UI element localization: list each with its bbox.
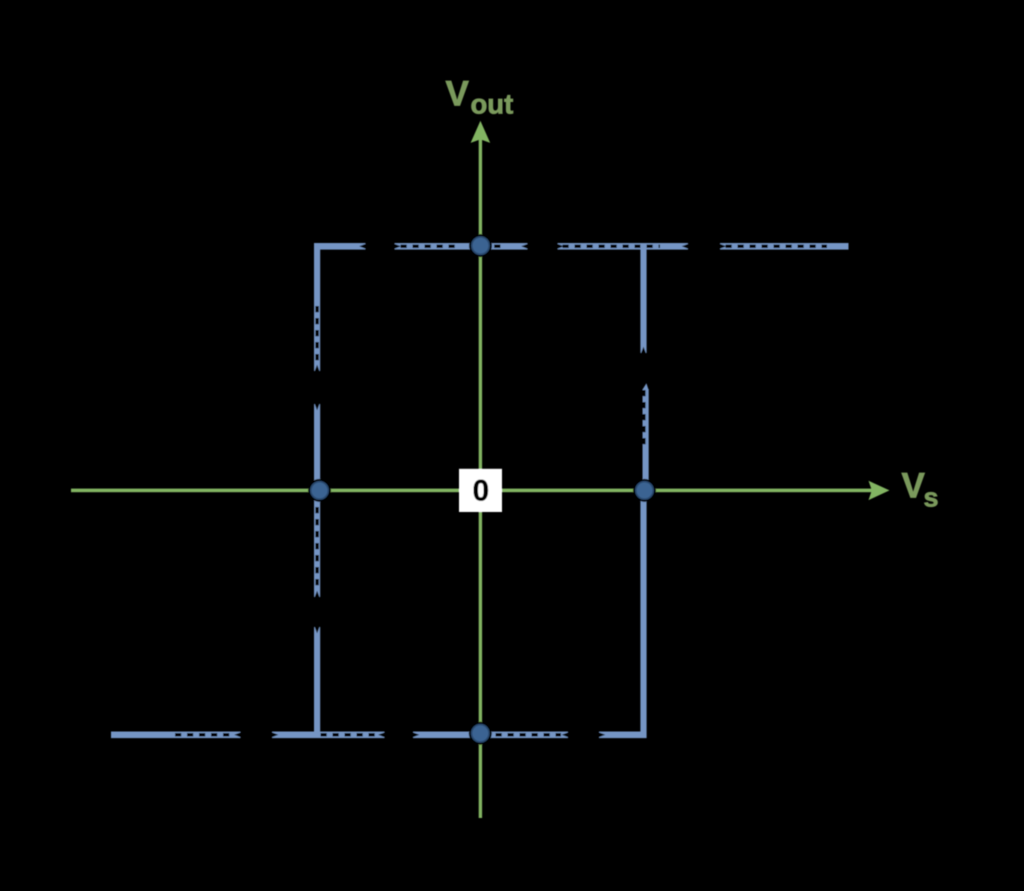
svg-text:V: V (902, 466, 926, 505)
svg-text:V: V (446, 74, 470, 113)
svg-text:0: 0 (472, 475, 489, 508)
svg-text:s: s (924, 482, 939, 512)
svg-text:out: out (471, 89, 514, 120)
